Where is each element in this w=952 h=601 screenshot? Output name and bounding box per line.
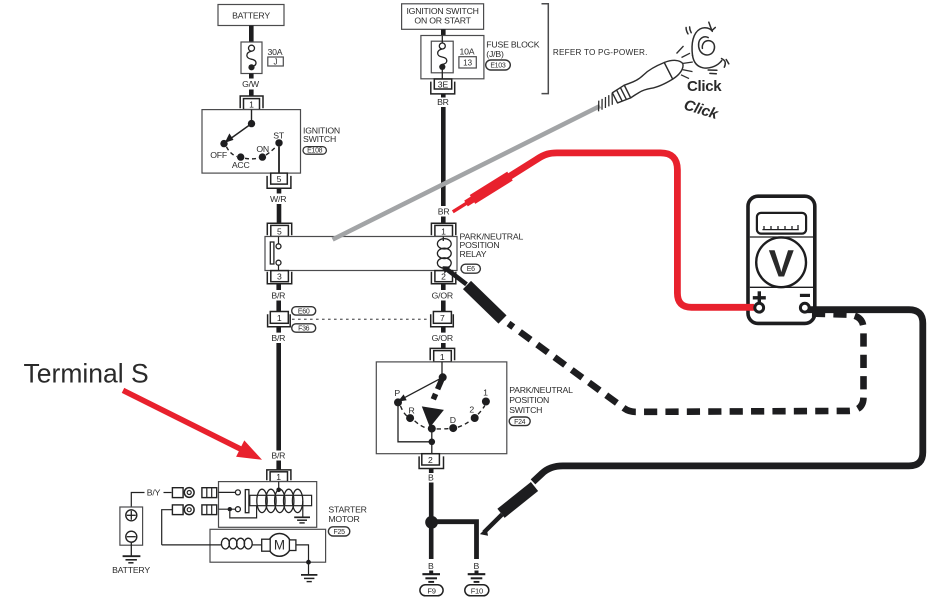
plus terminal [755, 303, 764, 312]
relay contact terminals [278, 237, 280, 245]
wire down to ground junction [429, 483, 434, 518]
svg-text:BATTERY: BATTERY [232, 11, 270, 21]
svg-text:2: 2 [441, 272, 446, 282]
battery to ground [130, 542, 132, 556]
callout red arrow [123, 390, 242, 449]
black probe tip upper [447, 269, 467, 284]
output junction [429, 439, 436, 446]
relay pin 5 connector [267, 223, 291, 235]
connector ref F24 [509, 417, 530, 426]
svg-text:F10: F10 [471, 586, 483, 595]
contact N [428, 425, 436, 433]
svg-text:5: 5 [277, 226, 282, 236]
B/Y dash [164, 492, 172, 494]
svg-text:(J/B): (J/B) [486, 49, 504, 59]
N output line [431, 429, 433, 454]
relay pin 3 connector [267, 272, 291, 284]
fuse letter J box [268, 57, 284, 66]
meter display [757, 213, 806, 234]
wiper arrow to OFF [230, 124, 252, 139]
brush right [289, 540, 296, 551]
connector ref E6 [461, 264, 480, 273]
svg-text:FUSE BLOCK: FUSE BLOCK [486, 39, 539, 49]
ground F9 [429, 571, 433, 575]
contact OFF [220, 140, 227, 147]
motor output wire [296, 545, 309, 562]
svg-text:ST: ST [273, 130, 285, 140]
refer bracket [542, 4, 549, 94]
svg-text:REFER TO PG-POWER.: REFER TO PG-POWER. [553, 48, 648, 57]
red probe tip [453, 203, 467, 212]
black lead solid [533, 310, 923, 482]
svg-text:1: 1 [440, 352, 445, 362]
terminal block lower [202, 505, 217, 515]
motor armature M [268, 534, 291, 557]
svg-text:3: 3 [277, 272, 282, 282]
svg-text:Terminal S: Terminal S [24, 359, 149, 389]
svg-text:1: 1 [441, 226, 446, 236]
svg-text:B: B [428, 561, 434, 571]
inline connector E60/F36 pin 1 [270, 312, 288, 324]
connector 3E fuse block [434, 79, 451, 89]
contact junction dot [228, 507, 232, 511]
switch common feed [251, 110, 253, 124]
svg-text:RELAY: RELAY [460, 249, 487, 259]
motor ground [301, 574, 317, 576]
terminal block upper [202, 488, 217, 498]
svg-text:ACC: ACC [232, 160, 250, 170]
contact link path [230, 506, 257, 518]
minus terminal [800, 303, 809, 312]
svg-text:10A: 10A [460, 47, 475, 57]
svg-text:B/R: B/R [271, 451, 285, 461]
wire to fuse block [441, 29, 446, 36]
black probe tip lower [484, 515, 502, 533]
connector ref E108 [303, 147, 326, 155]
svg-text:B/R: B/R [271, 333, 285, 343]
wire battery to fusible link [249, 26, 254, 43]
panel line upper [750, 236, 813, 238]
listening probe cable [333, 106, 600, 240]
red probe body [473, 176, 511, 199]
ST output line [278, 147, 280, 174]
svg-text:POSITION: POSITION [509, 395, 549, 405]
selector motion arrow [438, 377, 443, 389]
svg-text:3E: 3E [438, 79, 449, 89]
battery supply box [218, 5, 284, 26]
svg-text:MOTOR: MOTOR [328, 514, 359, 524]
svg-text:E108: E108 [307, 148, 323, 155]
svg-text:BATTERY: BATTERY [112, 565, 150, 575]
svg-text:J: J [274, 57, 278, 66]
svg-text:1: 1 [483, 387, 488, 397]
wire to connector 7 [441, 301, 446, 312]
solenoid internal ground [294, 516, 310, 518]
listening probe tool [592, 55, 687, 116]
svg-text:F24: F24 [514, 419, 526, 426]
probe sound lines [677, 46, 693, 79]
black probe body upper [467, 285, 503, 320]
switch pivot [248, 120, 255, 127]
fuse number 13 box [459, 57, 476, 68]
contact 2 [471, 414, 479, 422]
connector ref E60 [292, 307, 316, 315]
svg-text:1: 1 [277, 313, 282, 323]
ignition switch box [202, 110, 301, 174]
starter motor box [210, 529, 326, 562]
svg-text:STARTER: STARTER [328, 505, 366, 515]
wire stub below 3E [441, 94, 446, 98]
contact ACC [237, 153, 244, 160]
brush left [262, 539, 271, 551]
connector ref F36 [292, 324, 316, 332]
ring terminal lower [172, 505, 183, 515]
solenoid feed line [278, 482, 280, 490]
connector ref E103 [486, 60, 511, 70]
contact D [449, 424, 457, 432]
ignition feed box [402, 4, 484, 30]
svg-text:D: D [450, 415, 456, 425]
connector ref F25 [328, 527, 349, 536]
wire stub into starter connector [276, 461, 281, 471]
svg-text:Click: Click [687, 78, 722, 95]
wire stub below pn switch [429, 469, 434, 474]
battery box [120, 507, 143, 545]
winding to motor [252, 544, 262, 546]
fusible link J [241, 42, 262, 74]
volt dial [756, 237, 806, 287]
gate arc dashes [401, 406, 485, 429]
svg-text:E60: E60 [298, 308, 310, 315]
svg-text:5: 5 [277, 174, 282, 184]
wire stub below pin2 [441, 284, 446, 290]
starter connector 1 [267, 470, 291, 480]
svg-text:BR: BR [438, 207, 450, 217]
rotor pivot [439, 373, 447, 381]
svg-text:F36: F36 [298, 325, 310, 332]
field winding [221, 538, 229, 549]
wire into ignition switch [249, 90, 254, 97]
black lead dashed [509, 314, 864, 412]
contact ST [275, 139, 282, 146]
field winding feed [162, 544, 222, 546]
svg-text:SWITCH: SWITCH [509, 405, 542, 415]
svg-text:E103: E103 [490, 63, 506, 70]
svg-text:30A: 30A [268, 47, 283, 57]
svg-text:1: 1 [276, 472, 281, 482]
wire stub below left inline connector [276, 327, 281, 333]
multimeter body [748, 196, 815, 323]
contact R [406, 414, 414, 422]
svg-text:2: 2 [428, 455, 433, 465]
svg-text:ON OR START: ON OR START [414, 15, 471, 25]
svg-text:1: 1 [249, 100, 254, 110]
svg-text:ON: ON [256, 144, 269, 154]
wiper arrow to P [404, 377, 443, 398]
svg-text:F9: F9 [427, 586, 435, 595]
svg-text:B: B [473, 561, 479, 571]
connector 5 ignition switch [271, 173, 288, 184]
fuse block outer box [421, 36, 484, 79]
svg-text:W/R: W/R [270, 194, 286, 204]
ground junction [425, 516, 438, 529]
solenoid core [250, 495, 312, 505]
detent arc dashes [227, 146, 277, 159]
svg-text:R: R [408, 405, 414, 415]
relay box E6 [265, 237, 457, 271]
battery feed path [131, 493, 144, 510]
fuse 10A inner box [431, 41, 453, 73]
svg-text:7: 7 [440, 313, 445, 323]
solenoid coil top junction [276, 488, 281, 493]
svg-text:SWITCH: SWITCH [303, 134, 336, 144]
starter solenoid box [219, 482, 317, 528]
minus marking [800, 294, 810, 297]
feed line to rotor [441, 362, 443, 377]
wire stub below connector 7 [441, 327, 446, 333]
relay pin 2 connector [431, 272, 455, 284]
svg-text:2: 2 [469, 404, 474, 414]
svg-text:G/OR: G/OR [432, 333, 453, 343]
svg-text:V: V [769, 243, 795, 285]
panel line lower [750, 286, 813, 288]
battery ground [123, 555, 141, 557]
svg-text:B/Y: B/Y [147, 488, 161, 498]
solenoid winding [257, 489, 267, 512]
black probe body lower [501, 487, 535, 514]
svg-text:BR: BR [437, 97, 449, 107]
wire W/R down to relay [277, 204, 282, 224]
relay coil [442, 237, 444, 242]
svg-text:M: M [274, 538, 285, 553]
inline connector pin 7 [433, 312, 451, 324]
motor ground junction [306, 560, 311, 565]
svg-text:P: P [394, 388, 400, 398]
svg-text:IGNITION SWITCH: IGNITION SWITCH [406, 6, 478, 16]
pn switch connector 1 [430, 348, 454, 360]
svg-text:PARK/NEUTRAL: PARK/NEUTRAL [509, 385, 573, 395]
relay contact bar [270, 242, 274, 264]
battery plus [126, 510, 137, 521]
contact 1 [482, 398, 490, 406]
wire stub into relay pin 1 [441, 217, 446, 224]
wire to F9 ground [429, 527, 434, 559]
long BR wire down to relay [441, 107, 446, 206]
plus marking [753, 296, 766, 299]
connector 1 ignition switch [240, 96, 263, 108]
wire stub below fusible link [249, 74, 254, 79]
svg-text:E6: E6 [467, 266, 475, 273]
svg-text:G/OR: G/OR [432, 290, 453, 300]
wire stub below pin3 [276, 284, 281, 290]
red test lead [466, 153, 754, 307]
battery minus [126, 531, 137, 542]
contact feed lines [219, 491, 236, 493]
relay pin 1 connector [431, 223, 455, 235]
harness dotted link [292, 318, 431, 320]
svg-text:F25: F25 [334, 529, 346, 536]
long B/R wire to starter [276, 343, 281, 451]
P branch wire [398, 402, 432, 441]
branch wire to F10 ground [432, 522, 477, 559]
ring terminal upper [172, 488, 183, 498]
display scale [762, 225, 798, 230]
lower feed path [162, 510, 173, 545]
ground F10 [475, 571, 479, 575]
winding to ground [302, 501, 304, 517]
wire stub below ign switch [277, 188, 282, 193]
svg-text:G/W: G/W [242, 79, 260, 89]
solenoid contacts [235, 490, 240, 495]
wire to inline connector [276, 301, 281, 312]
svg-text:OFF: OFF [210, 150, 227, 160]
pn switch connector 2 [422, 454, 440, 465]
contact ON [259, 153, 266, 160]
svg-text:13: 13 [463, 58, 472, 67]
ear sketch [686, 22, 729, 74]
wire down to pn switch [441, 343, 446, 349]
svg-text:B: B [428, 472, 434, 482]
contact P [394, 398, 402, 406]
svg-text:B/R: B/R [271, 290, 285, 300]
plunger bar [245, 490, 249, 513]
pn switch box F24 [376, 362, 507, 454]
